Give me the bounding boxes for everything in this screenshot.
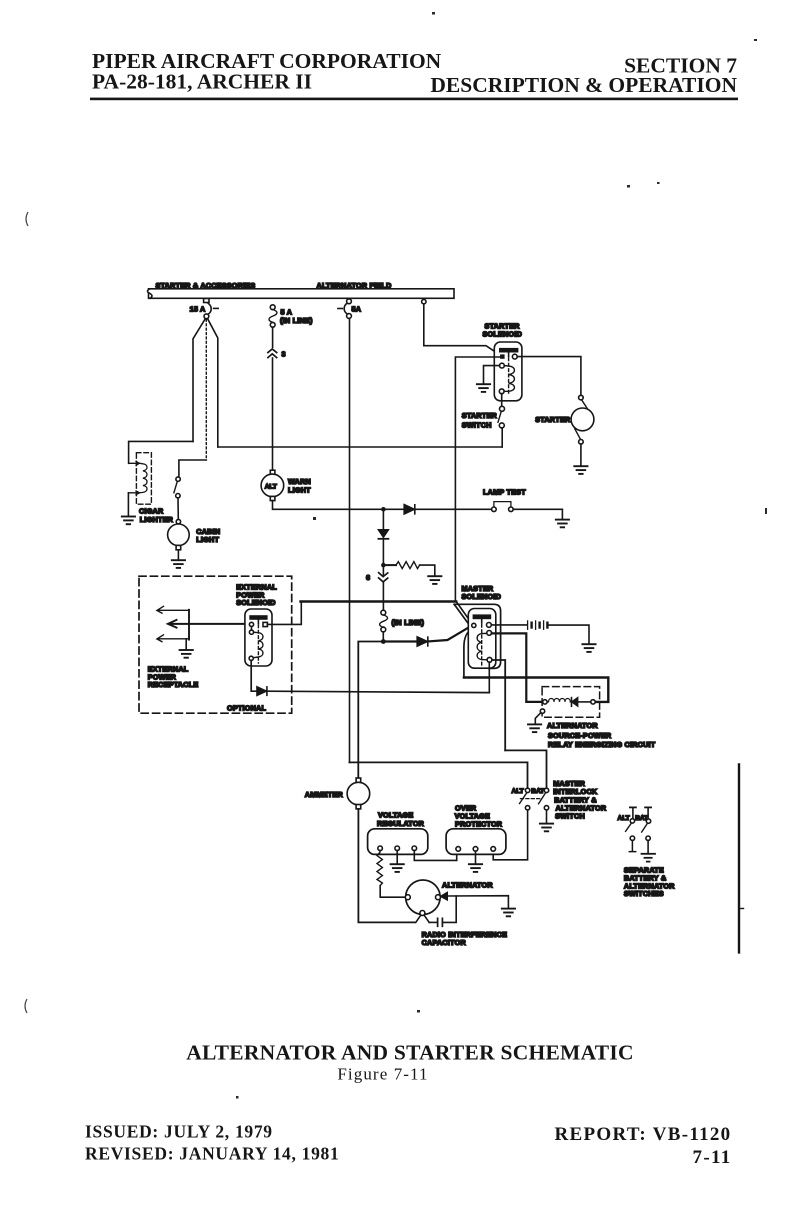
cabin light	[168, 519, 221, 549]
ground	[556, 520, 569, 528]
svg-text:STARTER: STARTER	[462, 411, 498, 420]
wire: receptacle feed arrow	[168, 620, 250, 628]
wire: warn light to lamp-test line	[273, 501, 383, 510]
header: manual page heading	[90, 49, 738, 100]
svg-text:SOLENOID: SOLENOID	[483, 330, 523, 339]
wire: master solenoid bottom terminal right and down	[492, 660, 505, 750]
wire: master solenoid bottom stub down to bus	[488, 662, 490, 692]
lamp test switch	[483, 487, 526, 511]
svg-text:DESCRIPTION & OPERATION: DESCRIPTION & OPERATION	[430, 73, 737, 97]
wire	[177, 498, 179, 520]
footer: figure title	[186, 1041, 634, 1084]
svg-text:SWITCH: SWITCH	[462, 420, 492, 429]
wire: thick distribution bus	[464, 678, 608, 702]
svg-text:6: 6	[366, 573, 370, 582]
wire: coil top to ground	[484, 366, 500, 384]
wire: VR middle terminal ground	[396, 851, 398, 864]
svg-text:(IN LINE): (IN LINE)	[280, 316, 313, 325]
svg-text:SWITCHES: SWITCHES	[624, 889, 664, 898]
fuse F1 5A (IN LINE)	[269, 305, 313, 327]
svg-text:PA-28-181, ARCHER II: PA-28-181, ARCHER II	[92, 70, 312, 94]
ground	[469, 864, 482, 872]
ground	[428, 576, 441, 584]
node junction	[381, 563, 386, 568]
starter solenoid	[483, 322, 523, 401]
svg-text:SOLENOID: SOLENOID	[236, 598, 276, 607]
svg-text:LIGHTER: LIGHTER	[140, 515, 174, 524]
ground	[582, 644, 595, 652]
external power receptacle	[148, 606, 199, 689]
wire: bundle center to cabin light switch	[179, 460, 206, 477]
wire: VR right to OVP left	[414, 851, 456, 861]
ground	[391, 864, 404, 872]
svg-text:ISSUED: JULY 2, 1979: ISSUED: JULY 2, 1979	[85, 1122, 273, 1142]
svg-text:ALTERNATOR: ALTERNATOR	[547, 721, 598, 730]
wire: master solenoid terminal 2 to relay branch	[492, 633, 543, 702]
ground	[477, 384, 490, 392]
optional box (dashed)	[139, 576, 292, 713]
wire: cable bundle from CB1 down	[193, 319, 218, 460]
svg-text:REGULATOR: REGULATOR	[377, 819, 425, 828]
svg-text:15 A: 15 A	[190, 305, 206, 314]
wire	[127, 493, 129, 516]
wire: solenoid right terminal to starter motor	[517, 357, 581, 396]
ground	[642, 854, 656, 862]
svg-text:REVISED: JANUARY 14, 1981: REVISED: JANUARY 14, 1981	[85, 1144, 339, 1164]
master interlock switch ALT/BAT	[512, 779, 607, 820]
external power solenoid	[236, 582, 277, 666]
svg-text:ALT: ALT	[618, 815, 630, 822]
wire: bundle left to cigar lighter	[129, 441, 193, 463]
wire	[549, 625, 590, 643]
svg-text:REPORT: VB-1120: REPORT: VB-1120	[554, 1124, 731, 1145]
wire: power bus horizontal	[301, 600, 457, 602]
svg-text:(IN LINE): (IN LINE)	[392, 618, 425, 627]
svg-text:3: 3	[282, 350, 286, 359]
starter motor	[535, 395, 594, 444]
node junction	[381, 507, 386, 512]
svg-text:SWITCH: SWITCH	[555, 811, 585, 820]
ground	[172, 560, 185, 568]
svg-text:SOURCE-POWER: SOURCE-POWER	[548, 731, 612, 740]
svg-text:LIGHT: LIGHT	[288, 485, 311, 494]
wire: solenoid bottom to starter switch	[501, 394, 503, 407]
svg-text:CAPACITOR: CAPACITOR	[422, 938, 467, 947]
over voltage protector OVP1	[446, 804, 506, 855]
svg-text:BAT: BAT	[635, 815, 648, 822]
svg-text:STARTER: STARTER	[535, 415, 571, 424]
wire: CB2 drop to ammeter branch	[349, 318, 351, 762]
battery BT1	[528, 621, 548, 629]
separate battery & alternator switches	[618, 807, 676, 898]
svg-text:AMMETER: AMMETER	[305, 790, 344, 799]
svg-text:PROTECTOR: PROTECTOR	[455, 820, 503, 829]
wire: bus right to starter solenoid	[424, 304, 500, 355]
ground	[528, 724, 541, 732]
ground	[574, 466, 587, 474]
scan artifact line right margin	[739, 765, 744, 953]
connector 3	[268, 349, 286, 359]
cigar lighter	[129, 453, 174, 524]
resistor R2: VR to alternator field	[377, 851, 405, 898]
wire	[580, 444, 582, 465]
wire: ammeter riser	[358, 642, 383, 778]
voltage regulator VR1	[368, 810, 428, 854]
svg-text:ALTERNATOR: ALTERNATOR	[442, 881, 493, 890]
breaker CB1 15 A	[190, 299, 219, 319]
svg-text:BAT: BAT	[531, 788, 544, 795]
svg-text:SOLENOID: SOLENOID	[462, 592, 502, 601]
connector 6	[366, 567, 388, 582]
wire: bundle right to starter switch	[218, 446, 502, 448]
ground	[540, 824, 553, 832]
relay K1: alternator source-power relay	[540, 687, 655, 750]
alternator G1	[405, 880, 493, 916]
svg-text:ALT: ALT	[265, 483, 277, 490]
svg-text:LIGHT: LIGHT	[196, 535, 219, 544]
svg-text:LAMP TEST: LAMP TEST	[483, 487, 526, 496]
diode D4	[257, 687, 489, 696]
ammeter M1	[305, 778, 370, 809]
wire: alternator bottom tent	[416, 915, 429, 922]
fuse F2 (IN LINE)	[380, 610, 425, 632]
ground	[180, 650, 193, 658]
svg-text:Figure 7-11: Figure 7-11	[337, 1065, 428, 1084]
master solenoid	[454, 584, 501, 678]
wire	[513, 509, 562, 518]
wire	[546, 810, 548, 823]
wire	[501, 428, 503, 447]
diode D1	[386, 505, 492, 514]
wire	[382, 632, 384, 639]
svg-text:ALTERNATOR FIELD: ALTERNATOR FIELD	[317, 281, 392, 290]
wire: master solenoid terminal to battery	[491, 624, 526, 626]
wire: connector 6 down to power bus	[382, 582, 384, 610]
resistor R1 to ground	[386, 562, 435, 576]
bus bar: STARTER & ACCESSORIES / ALTERNATOR FIELD	[148, 281, 455, 298]
ground	[502, 909, 515, 917]
svg-text:STARTER & ACCESSORIES: STARTER & ACCESSORIES	[156, 281, 256, 290]
wire: solenoid branch to interlock BAT	[505, 750, 546, 788]
wire: left terminal to vertical feed	[455, 357, 500, 601]
footer: issue block	[85, 1122, 732, 1169]
wire: OVP middle terminal ground	[475, 851, 477, 863]
diode D2 (down)	[378, 512, 388, 563]
capacitor C1 radio interference	[422, 896, 508, 947]
wire: F1 down to warn light	[272, 327, 274, 470]
diode D3 to master solenoid	[386, 626, 472, 646]
wire	[185, 639, 187, 649]
wire: CB2 branch to interlock ALT	[350, 762, 528, 788]
wire: interlock ALT down to OVP	[493, 810, 527, 860]
wire	[177, 550, 179, 560]
svg-text:RECEPTACLE: RECEPTACLE	[148, 680, 199, 689]
warn light ALT	[261, 470, 311, 500]
cabin light switch	[174, 477, 180, 498]
ground	[122, 517, 135, 525]
wire	[535, 713, 541, 723]
svg-text:5A: 5A	[352, 305, 362, 314]
node junction	[381, 639, 386, 644]
starter switch	[462, 406, 505, 429]
svg-text:ALT: ALT	[512, 788, 524, 795]
wire: external power diode line	[251, 660, 256, 691]
svg-text:VOLTAGE: VOLTAGE	[378, 810, 413, 819]
wire: ammeter down to alternator line	[358, 809, 414, 923]
node: bus right drop	[422, 299, 426, 303]
breaker CB2 5A	[338, 299, 361, 319]
svg-text:RELAY ENERGIZING CIRCUIT: RELAY ENERGIZING CIRCUIT	[548, 740, 656, 749]
wire: ext solenoid right terminal to power bus	[268, 602, 302, 624]
wire: alternator output with arrow	[441, 893, 509, 908]
svg-text:OPTIONAL: OPTIONAL	[227, 703, 266, 712]
svg-text:7-11: 7-11	[693, 1147, 732, 1168]
svg-text:ALTERNATOR AND STARTER SCHEMAT: ALTERNATOR AND STARTER SCHEMATIC	[186, 1041, 634, 1065]
